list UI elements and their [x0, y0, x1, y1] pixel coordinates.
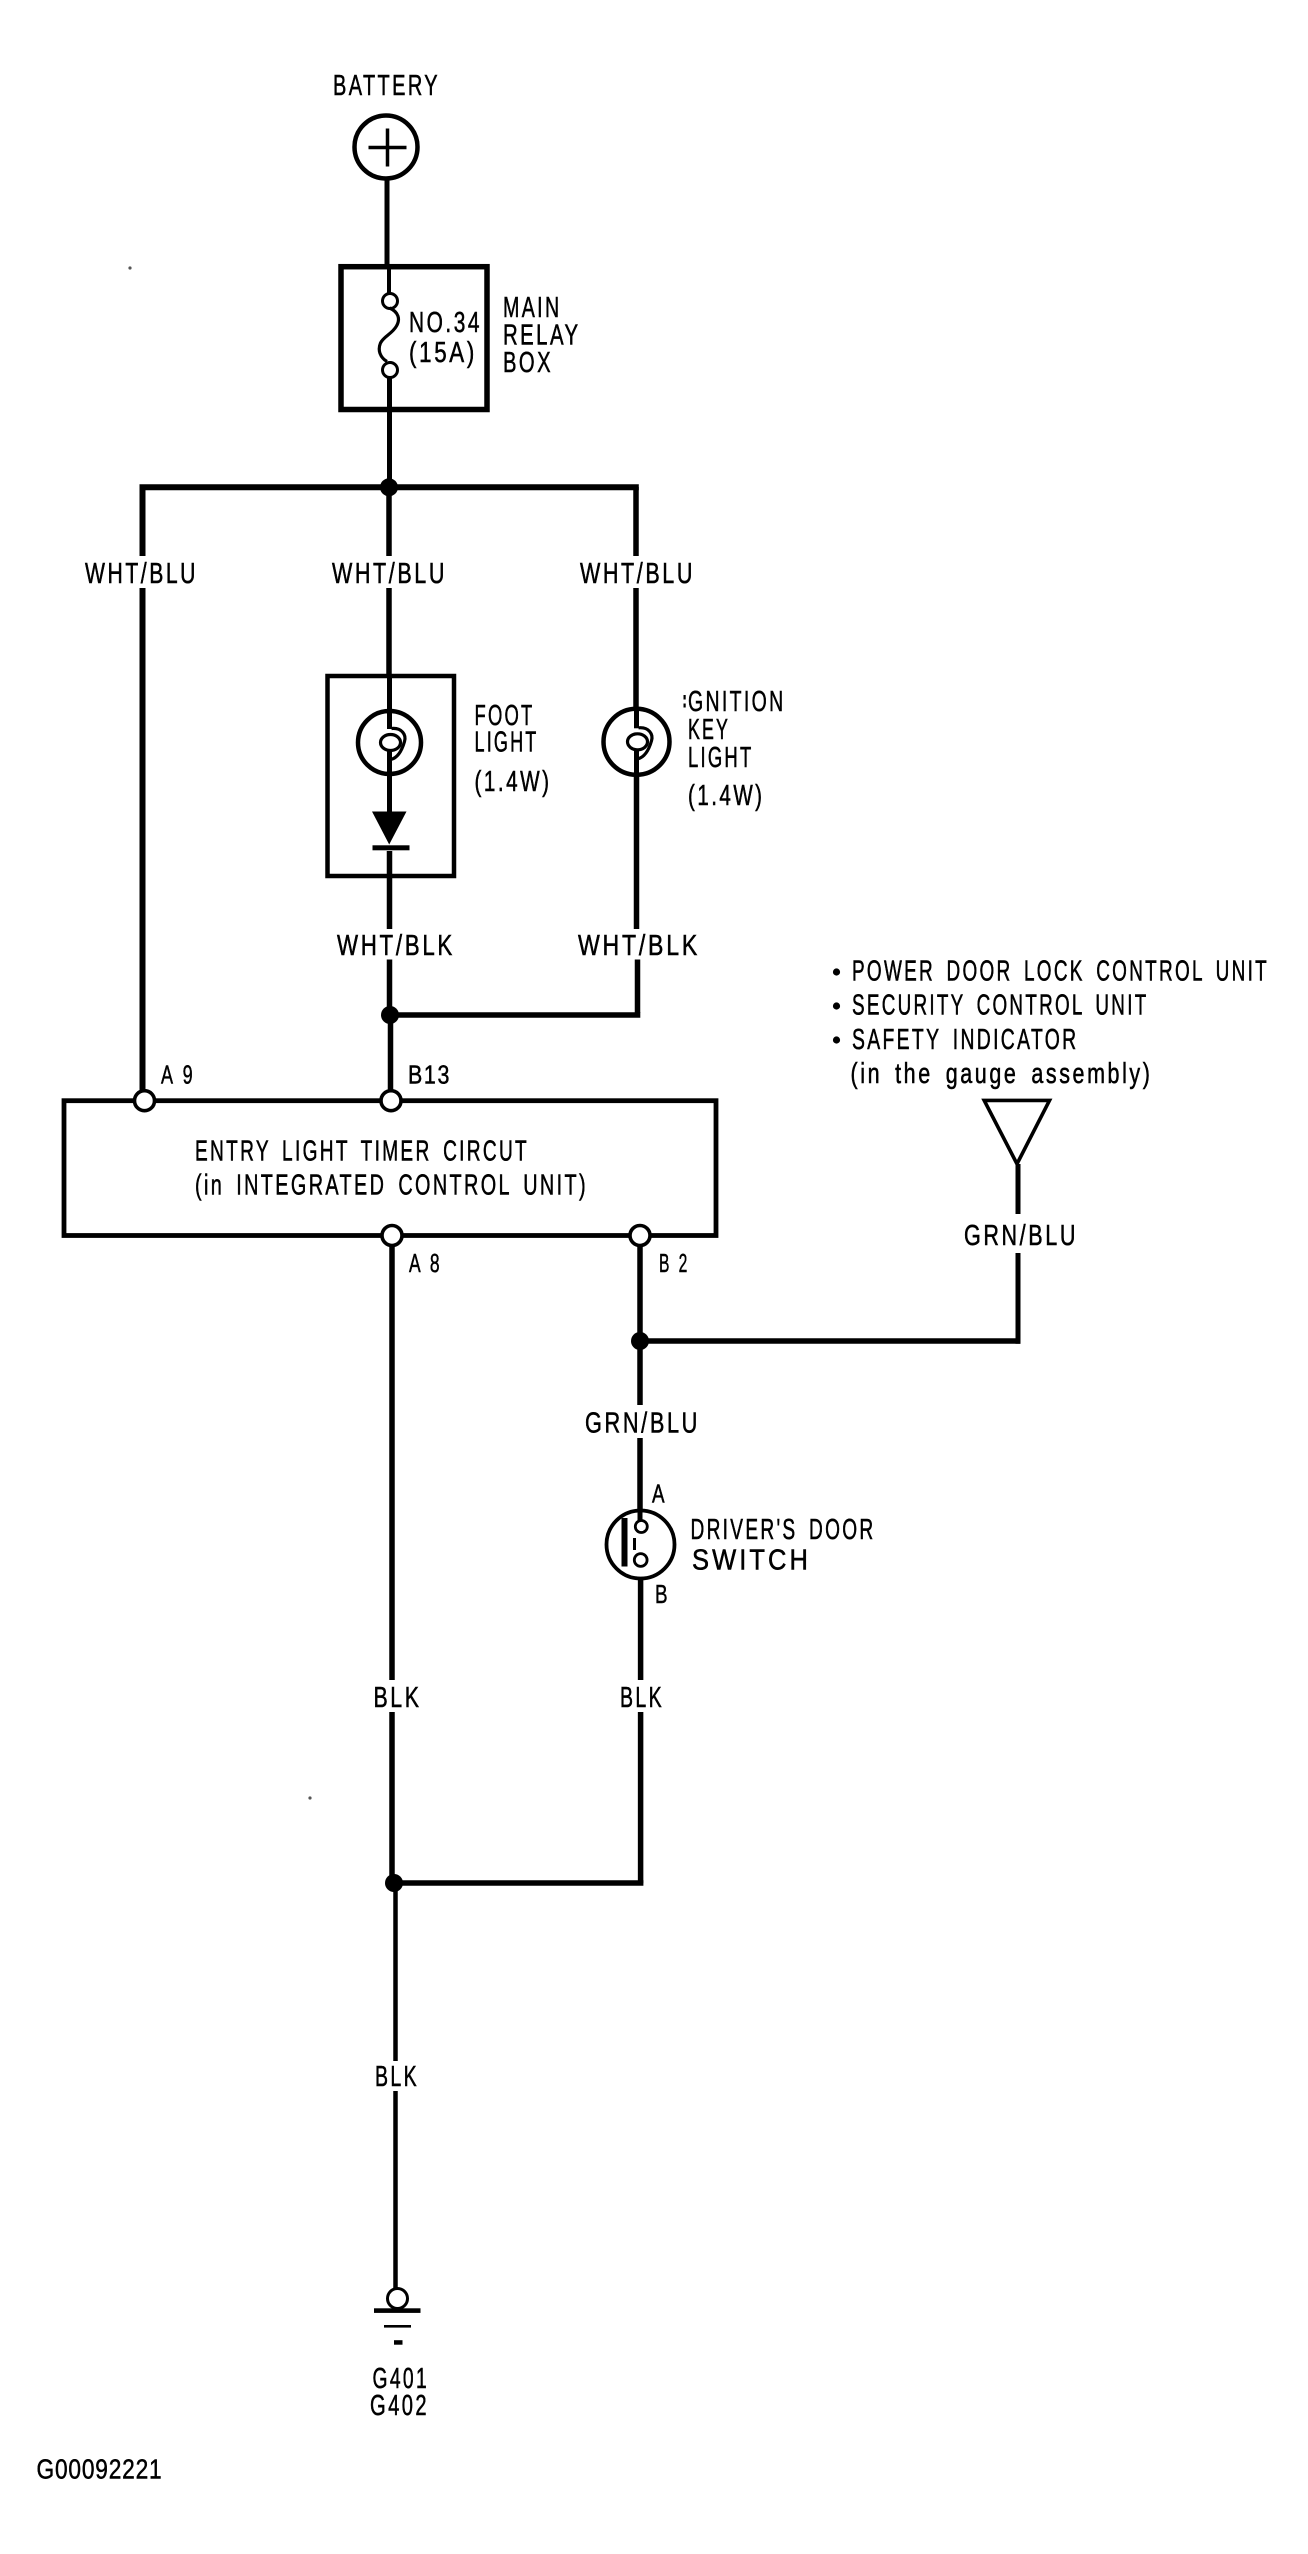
svg-text:G402: G402 [370, 2390, 429, 2422]
svg-text:BOX: BOX [503, 347, 553, 379]
svg-text:ENTRY LIGHT TIMER CIRCUT: ENTRY LIGHT TIMER CIRCUT [195, 1136, 529, 1168]
svg-text:DRIVER'S DOOR: DRIVER'S DOOR [691, 1514, 876, 1546]
svg-text:A: A [652, 1479, 666, 1509]
svg-text:BLK: BLK [620, 1682, 664, 1714]
svg-text:G00092221: G00092221 [37, 2454, 163, 2485]
svg-text:A 9: A 9 [161, 1060, 194, 1090]
svg-text:(15A): (15A) [409, 337, 477, 369]
svg-text:BLK: BLK [374, 1682, 422, 1714]
svg-text:B 2: B 2 [659, 1248, 689, 1278]
svg-text:A 8: A 8 [409, 1248, 441, 1278]
svg-text:BATTERY: BATTERY [333, 70, 440, 102]
svg-text:WHT/BLK: WHT/BLK [337, 930, 455, 962]
svg-text:SAFETY INDICATOR: SAFETY INDICATOR [852, 1024, 1079, 1056]
svg-text:GRN/BLU: GRN/BLU [585, 1408, 700, 1440]
svg-text:(1.4W): (1.4W) [475, 766, 552, 798]
svg-text:LIGHT: LIGHT [688, 742, 754, 774]
svg-text:BLK: BLK [375, 2061, 419, 2093]
svg-text:WHT/BLU: WHT/BLU [85, 558, 198, 590]
svg-text:(in the gauge assembly): (in the gauge assembly) [851, 1058, 1153, 1090]
svg-text:NO.34: NO.34 [409, 307, 482, 339]
svg-text:B13: B13 [408, 1060, 451, 1090]
svg-text:(in INTEGRATED CONTROL UNIT): (in INTEGRATED CONTROL UNIT) [195, 1170, 588, 1202]
svg-text:WHT/BLU: WHT/BLU [580, 558, 695, 590]
svg-text:WHT/BLK: WHT/BLK [578, 930, 700, 962]
svg-text:POWER DOOR LOCK CONTROL UNIT: POWER DOOR LOCK CONTROL UNIT [852, 956, 1269, 988]
svg-text:SWITCH: SWITCH [692, 1545, 811, 1577]
svg-text:GRN/BLU: GRN/BLU [964, 1220, 1078, 1252]
svg-text:SECURITY CONTROL UNIT: SECURITY CONTROL UNIT [852, 990, 1149, 1022]
svg-text:(1.4W): (1.4W) [688, 780, 765, 812]
svg-text:WHT/BLU: WHT/BLU [332, 558, 447, 590]
svg-text:B: B [655, 1579, 669, 1609]
svg-text:LIGHT: LIGHT [475, 727, 539, 759]
